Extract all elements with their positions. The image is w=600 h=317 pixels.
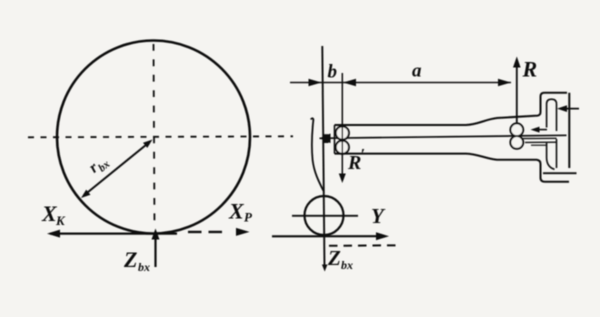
axle left end face xyxy=(334,125,336,154)
svg-text:a: a xyxy=(412,61,422,82)
svg-text:R: R xyxy=(522,57,538,82)
Z_bx arrow (left figure, pointing up at contact) xyxy=(154,235,156,267)
top-right arrow (points left) xyxy=(560,108,579,110)
label X_K xyxy=(41,201,66,228)
label Z_bx (right) xyxy=(327,246,353,272)
inner hub face vertical (lower part) xyxy=(556,139,558,168)
horizontal centerline (dash-dot) xyxy=(28,136,293,137)
dashed Z axis hint (right figure) xyxy=(329,244,398,247)
svg-text:R: R xyxy=(347,152,361,174)
X_P dashed arrow xyxy=(188,231,222,233)
Y axis line with arrow xyxy=(272,235,381,237)
svg-text:Z: Z xyxy=(327,246,341,270)
svg-text:P: P xyxy=(244,210,253,225)
dim arrow at b left (points right, tip at ext line 1) xyxy=(309,79,322,87)
label Z_bx (left) xyxy=(123,247,150,274)
svg-text:X: X xyxy=(228,199,245,224)
flange plate vertical (lower) with J-curve xyxy=(547,143,555,169)
tire sidewall curve xyxy=(311,118,324,191)
axle housing bottom edge xyxy=(335,154,570,182)
dim arrow at a right (points right, tip at R line) xyxy=(498,79,511,87)
svg-text:b: b xyxy=(328,62,338,83)
svg-text:bx: bx xyxy=(341,258,353,272)
svg-text:Z: Z xyxy=(123,247,137,272)
R force arrow (up) xyxy=(516,61,518,123)
axle housing top edge xyxy=(335,93,568,125)
small arrow near right bearing (points left) xyxy=(535,129,547,131)
wheel circle (left figure) xyxy=(57,41,250,234)
svg-text:K: K xyxy=(55,213,66,228)
svg-text:bx: bx xyxy=(138,260,150,274)
dim arrow at a left (points left, tip at ext line 2) xyxy=(343,79,356,87)
vertical centerline (dash-dot) xyxy=(154,44,155,228)
hub flange right face (long vertical) xyxy=(568,93,570,168)
extension line 2 / R' force line xyxy=(341,73,343,179)
label r_bx (rotated along radius) xyxy=(86,152,113,179)
half-shaft lines near hub xyxy=(523,137,557,139)
extension line 1 (wheel plane), runs through small wheel down to Z axis xyxy=(322,46,324,268)
label R' xyxy=(347,147,365,175)
radius arrow r_bx (double-headed) xyxy=(81,140,153,199)
right bearing (two balls) xyxy=(510,123,523,136)
left bearing (two balls) xyxy=(336,126,349,139)
svg-text:Y: Y xyxy=(371,204,386,228)
small wheel circle (bottom of right figure) xyxy=(305,196,344,235)
lower hub line xyxy=(543,172,577,174)
inner bearing-cap bracket (top, narrow cap with long legs) xyxy=(547,99,557,131)
wheel horizontal diameter line xyxy=(292,215,358,217)
tangent line with X_K arrow xyxy=(50,233,177,235)
dimension line (b and a) xyxy=(290,82,511,84)
svg-text:′: ′ xyxy=(361,147,366,164)
axle centerline with black arrow at left xyxy=(320,134,331,144)
label X_P xyxy=(228,199,253,225)
